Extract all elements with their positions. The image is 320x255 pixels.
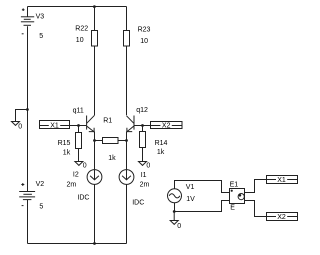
node V1 bottom junction	[173, 210, 176, 213]
macro X1 (right output box)	[267, 176, 298, 185]
wire V1 node to ground	[173, 212, 175, 221]
svg-text:5: 5	[39, 203, 43, 210]
svg-text:1k: 1k	[63, 150, 71, 157]
svg-text:X1: X1	[50, 123, 59, 130]
svg-text:q12: q12	[136, 107, 148, 114]
wire bottom rail	[28, 243, 127, 245]
wire R22 to q11 collector	[94, 46, 96, 115]
svg-text:X1: X1	[277, 177, 286, 184]
svg-text:X2: X2	[162, 123, 171, 130]
node bottom rail / I2 junction	[93, 242, 96, 245]
ground (below V1)	[170, 221, 178, 225]
svg-text:0: 0	[146, 163, 150, 170]
svg-text:V1: V1	[186, 184, 195, 191]
svg-text:0: 0	[18, 123, 22, 130]
current source I2	[87, 170, 102, 185]
svg-text:I1: I1	[141, 172, 147, 179]
svg-text:V3: V3	[36, 13, 45, 20]
resistor R1 (between emitters)	[95, 138, 127, 144]
svg-text:E1: E1	[230, 182, 239, 189]
wire top rail	[28, 6, 127, 8]
node top rail / R22 junction	[93, 5, 96, 8]
svg-text:1V: 1V	[186, 196, 195, 203]
svg-text:R1: R1	[103, 118, 112, 125]
wire q12 base to X2	[134, 125, 150, 127]
resistor R15	[78, 126, 80, 133]
node left column ground branch	[26, 108, 29, 111]
ground (below R14)	[139, 162, 147, 166]
resistor R22	[94, 7, 96, 31]
transistor q12	[127, 116, 135, 141]
svg-text:10: 10	[140, 38, 148, 45]
svg-text:R22: R22	[75, 26, 88, 33]
wire ground branch	[16, 110, 28, 122]
wire V1 top to E1 +input	[175, 181, 230, 193]
svg-text:2m: 2m	[140, 181, 150, 188]
svg-text:0: 0	[83, 163, 87, 170]
macro X2 (right of q12)	[151, 122, 183, 130]
battery V2	[19, 183, 35, 206]
node q11 base / R15 junction	[77, 124, 80, 127]
wire X1 to q11 base	[70, 125, 87, 127]
voltage source V1	[168, 189, 182, 203]
wire I1 to bottom rail	[126, 184, 128, 243]
svg-text:R15: R15	[58, 140, 71, 147]
wire R15 to ground	[78, 149, 80, 162]
resistor R14	[142, 126, 144, 132]
svg-text:0: 0	[177, 223, 181, 230]
svg-text:R23: R23	[138, 26, 151, 33]
svg-text:I2: I2	[73, 172, 79, 179]
node q12 base / R14 junction	[141, 124, 144, 127]
battery V3	[21, 7, 34, 34]
svg-text:10: 10	[76, 37, 84, 44]
svg-text:q11: q11	[73, 107, 84, 114]
current source I1	[119, 170, 134, 185]
wire R14 to ground	[142, 148, 144, 162]
wire q12 emitter node to I1	[126, 141, 128, 170]
wire V2 bottom to bottom rail	[27, 200, 29, 244]
svg-text:E: E	[230, 205, 235, 212]
svg-text:V2: V2	[36, 181, 45, 188]
transistor q11	[87, 115, 95, 140]
wire V1 bottom node	[175, 201, 230, 212]
svg-text:1k: 1k	[157, 149, 165, 156]
wire q11 emitter node to I2	[94, 141, 96, 170]
wire R23 to q12 collector	[126, 46, 128, 115]
svg-text:R14: R14	[155, 140, 168, 147]
resistor R23	[126, 7, 128, 31]
svg-text:IDC: IDC	[77, 194, 89, 201]
node q12 emitter junction	[125, 139, 128, 142]
svg-text:IDC: IDC	[132, 200, 144, 207]
svg-text:1k: 1k	[108, 155, 116, 162]
svg-text:2m: 2m	[67, 181, 77, 188]
VCVS E1	[230, 189, 245, 204]
macro X2 (right output box)	[267, 213, 298, 222]
wire left column V3 to V2	[27, 26, 29, 191]
macro X1 (left input box)	[40, 121, 70, 130]
wire E1 out+ to X1	[245, 180, 267, 193]
svg-text:X2: X2	[277, 214, 286, 221]
svg-text:5: 5	[39, 33, 43, 40]
wire I2 to bottom rail	[94, 184, 96, 243]
node q11 emitter junction	[93, 139, 96, 142]
ground (below R15)	[75, 162, 83, 166]
ground (left, node 0)	[12, 122, 20, 126]
wire E1 out- to X2	[245, 201, 267, 217]
